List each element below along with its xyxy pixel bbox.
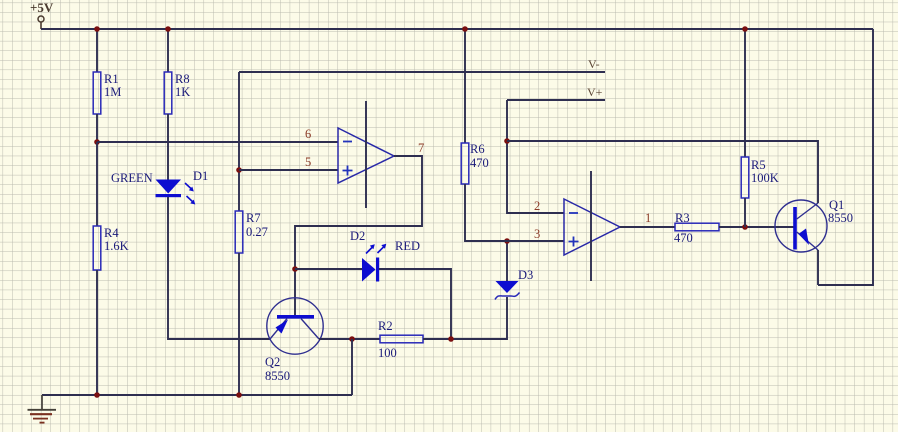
wire ground rail: [42, 394, 352, 396]
junction dots on top rail: [94, 26, 100, 32]
wire D2 anode: [295, 268, 362, 270]
LED D2: [362, 244, 386, 282]
junction: [94, 139, 100, 145]
diode D3 zener: [495, 281, 520, 300]
op-amp U1 power line: [365, 101, 367, 208]
svg-text:R4: R4: [104, 226, 119, 240]
junction: [236, 167, 242, 173]
junction: [504, 138, 510, 144]
resistor R2: [380, 335, 423, 343]
svg-text:470: 470: [674, 231, 693, 245]
svg-text:D2: D2: [350, 229, 365, 243]
transistor Q2: [267, 298, 323, 354]
resistor R6: [461, 143, 469, 184]
wire junction down to ground rail: [351, 339, 353, 395]
wire R8 column: [167, 29, 169, 72]
wire D2 cathode to node: [379, 269, 451, 339]
junction: [236, 392, 242, 398]
wire Q1 emitter to right rail: [817, 250, 819, 285]
wire R6 column: [464, 29, 466, 143]
wire R4 to ground rail: [96, 270, 98, 395]
svg-text:1K: 1K: [175, 85, 190, 99]
wire R3 to Q1 base: [719, 226, 795, 228]
svg-text:5: 5: [305, 155, 311, 169]
ground stem: [41, 395, 43, 409]
wire node to R4: [96, 142, 98, 226]
wire pin5 net: [239, 169, 338, 171]
svg-text:Q2: Q2: [265, 355, 280, 369]
op-amp U2 power line: [590, 171, 592, 281]
wire R5 to base node: [744, 198, 746, 227]
svg-text:R5: R5: [751, 158, 766, 172]
svg-text:V-: V-: [588, 57, 600, 71]
wire node to Q1 collector: [507, 141, 818, 203]
resistor R5: [741, 157, 749, 198]
svg-text:3: 3: [534, 227, 540, 241]
svg-text:1M: 1M: [104, 85, 121, 99]
resistor R1: [93, 72, 101, 114]
resistor R7: [235, 211, 243, 253]
svg-text:100K: 100K: [751, 171, 779, 185]
svg-text:D1: D1: [193, 169, 208, 183]
svg-text:R6: R6: [470, 142, 485, 156]
junction: [349, 336, 355, 342]
wire R6 to pin3: [465, 184, 564, 241]
transistor Q1: [775, 200, 827, 252]
svg-text:R2: R2: [378, 319, 393, 333]
junction: [448, 336, 454, 342]
wire op2 output to R3: [620, 226, 675, 228]
svg-text:2: 2: [534, 199, 540, 213]
svg-text:1.6K: 1.6K: [104, 239, 129, 253]
svg-text:+5V: +5V: [30, 0, 54, 15]
svg-text:8550: 8550: [265, 369, 290, 383]
junction: [742, 224, 748, 230]
svg-text:GREEN: GREEN: [111, 171, 153, 185]
wire +5V top rail: [41, 28, 873, 30]
wire V+ vertical: [507, 100, 564, 213]
svg-text:R8: R8: [175, 72, 190, 86]
resistor R3: [675, 223, 719, 231]
svg-text:D3: D3: [518, 268, 533, 282]
wire R2 right to D3 node: [423, 297, 507, 339]
wire Q2 collector to junction: [319, 338, 380, 340]
wire D3 anode up: [506, 241, 508, 281]
wire V- horizontal: [239, 71, 605, 73]
svg-text:R1: R1: [104, 72, 119, 86]
op-amp U1: [338, 128, 394, 183]
svg-text:8550: 8550: [828, 211, 853, 225]
wire V- net vertical: [238, 72, 240, 211]
wire D1 cathode down and right to Q2 emitter: [168, 197, 270, 339]
resistor R4: [93, 226, 101, 270]
wire R1 to node: [96, 114, 98, 142]
power port +5V: [30, 0, 54, 29]
op-amp U2: [564, 199, 620, 255]
wire op1 output: [295, 156, 422, 316]
svg-text:V+: V+: [587, 85, 603, 99]
svg-text:7: 7: [418, 141, 424, 155]
svg-text:6: 6: [305, 127, 311, 141]
svg-text:100: 100: [378, 346, 397, 360]
wire R1 column: [96, 29, 98, 72]
wire V+ horizontal: [507, 99, 605, 101]
wire R8 to D1: [167, 114, 169, 180]
svg-text:470: 470: [470, 156, 489, 170]
resistor R8: [164, 72, 172, 114]
wire R5 column: [744, 29, 746, 157]
ground: [28, 410, 57, 423]
svg-text:0.27: 0.27: [246, 225, 268, 239]
junction: [504, 238, 510, 244]
svg-text:1: 1: [645, 211, 651, 225]
wire R7 to ground rail: [238, 253, 240, 395]
junction: [94, 392, 100, 398]
junction: [292, 266, 298, 272]
svg-text:R7: R7: [246, 211, 261, 225]
svg-text:Q1: Q1: [829, 198, 844, 212]
LED D1: [156, 180, 196, 205]
svg-text:RED: RED: [395, 239, 420, 253]
wire right rail down: [818, 29, 873, 285]
wire pin6 net: [97, 141, 338, 143]
